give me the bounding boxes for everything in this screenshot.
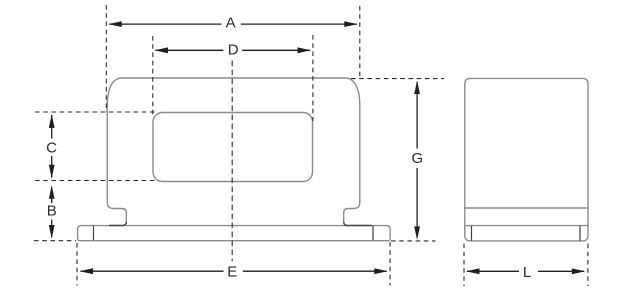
svg-text:C: C: [46, 139, 57, 156]
svg-text:E: E: [227, 264, 237, 281]
svg-text:L: L: [523, 264, 531, 281]
svg-text:D: D: [228, 42, 239, 59]
svg-text:G: G: [411, 150, 423, 167]
svg-text:A: A: [226, 15, 236, 32]
svg-text:B: B: [47, 202, 57, 219]
